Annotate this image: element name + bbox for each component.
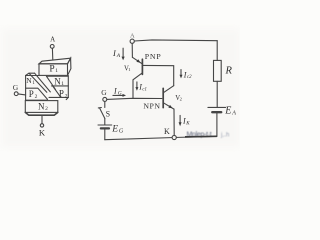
svg-text:N: N bbox=[54, 76, 61, 86]
wire bbox=[51, 48, 53, 60]
transistor V2 (NPN) bbox=[163, 86, 174, 136]
svg-text:N: N bbox=[26, 76, 32, 85]
svg-text:E: E bbox=[111, 124, 118, 134]
svg-text:E: E bbox=[224, 106, 231, 117]
battery Ea bbox=[208, 107, 226, 112]
svg-text:2: 2 bbox=[65, 93, 68, 99]
gate terminal G of circuit bbox=[103, 97, 107, 101]
wire gate to bases node bbox=[107, 98, 162, 99]
wire S to EG bbox=[104, 118, 106, 125]
layer N1 / P2 band (left stack) bbox=[26, 73, 47, 100]
svg-text:A: A bbox=[50, 36, 55, 44]
svg-text:1: 1 bbox=[61, 81, 64, 87]
node G (structure gate terminal) bbox=[14, 92, 25, 96]
layer N1 / P2 band (right stack) bbox=[49, 76, 68, 100]
wire bottom thick segment bbox=[185, 135, 217, 138]
wire gate branch down bbox=[104, 101, 106, 107]
svg-text:1: 1 bbox=[55, 68, 58, 74]
svg-text:P: P bbox=[29, 89, 34, 99]
wire battery to bottom bbox=[216, 112, 218, 136]
diagonal split lines of shared layers bbox=[29, 73, 68, 99]
wire top bbox=[134, 40, 217, 41]
svg-text:NPN: NPN bbox=[143, 101, 160, 110]
svg-text:K: K bbox=[185, 122, 190, 127]
svg-text:I: I bbox=[113, 86, 117, 95]
layer N2 box bbox=[25, 101, 58, 116]
anode terminal A of circuit bbox=[130, 39, 134, 43]
svg-text:j,․h: j,․h bbox=[220, 132, 229, 138]
svg-text:P: P bbox=[59, 89, 64, 99]
svg-text:G: G bbox=[101, 88, 107, 97]
current arrow Ic1 bbox=[135, 82, 138, 91]
svg-text:G: G bbox=[119, 128, 124, 134]
wire bottom bbox=[105, 136, 217, 139]
wire bbox=[18, 94, 26, 95]
svg-text:2: 2 bbox=[45, 106, 48, 112]
layer P1 box bbox=[39, 58, 71, 75]
svg-text:2: 2 bbox=[35, 94, 38, 100]
svg-text:P: P bbox=[49, 64, 54, 74]
current arrow IA bbox=[122, 48, 125, 60]
svg-text:K: K bbox=[164, 127, 170, 136]
wire EG to bottom bbox=[104, 128, 106, 139]
svg-text:S: S bbox=[106, 109, 110, 118]
svg-text:K: K bbox=[39, 127, 46, 137]
svg-text:c1: c1 bbox=[142, 87, 147, 92]
svg-text:G: G bbox=[118, 91, 122, 97]
svg-text:PNP: PNP bbox=[145, 52, 162, 61]
battery EG bbox=[98, 125, 112, 128]
svg-text:2: 2 bbox=[180, 97, 182, 102]
svg-text:A: A bbox=[130, 32, 135, 39]
svg-text:G: G bbox=[13, 83, 19, 92]
svg-text:1: 1 bbox=[128, 67, 130, 72]
wire V1 base to V2 collector bbox=[142, 65, 173, 85]
wire R to battery bbox=[216, 81, 218, 107]
wire right branch upper bbox=[216, 41, 218, 61]
watermark text over bottom wire bbox=[187, 132, 230, 139]
cathode terminal K of circuit bbox=[172, 135, 176, 139]
resistor R bbox=[214, 60, 222, 81]
current arrow Ic2 bbox=[180, 70, 183, 79]
svg-text:c2: c2 bbox=[187, 75, 192, 80]
current arrow IK bbox=[179, 115, 182, 126]
switch S bbox=[98, 108, 105, 119]
current arrow IG bbox=[113, 94, 126, 97]
transistor V1 (PNP) bbox=[132, 43, 142, 98]
svg-text:R: R bbox=[225, 66, 233, 77]
svg-text:A: A bbox=[231, 111, 236, 117]
node K (structure cathode terminal) bbox=[40, 116, 43, 128]
svg-text:N: N bbox=[38, 101, 45, 111]
node A (structure anode terminal) bbox=[50, 45, 54, 61]
svg-text:A: A bbox=[116, 53, 121, 59]
